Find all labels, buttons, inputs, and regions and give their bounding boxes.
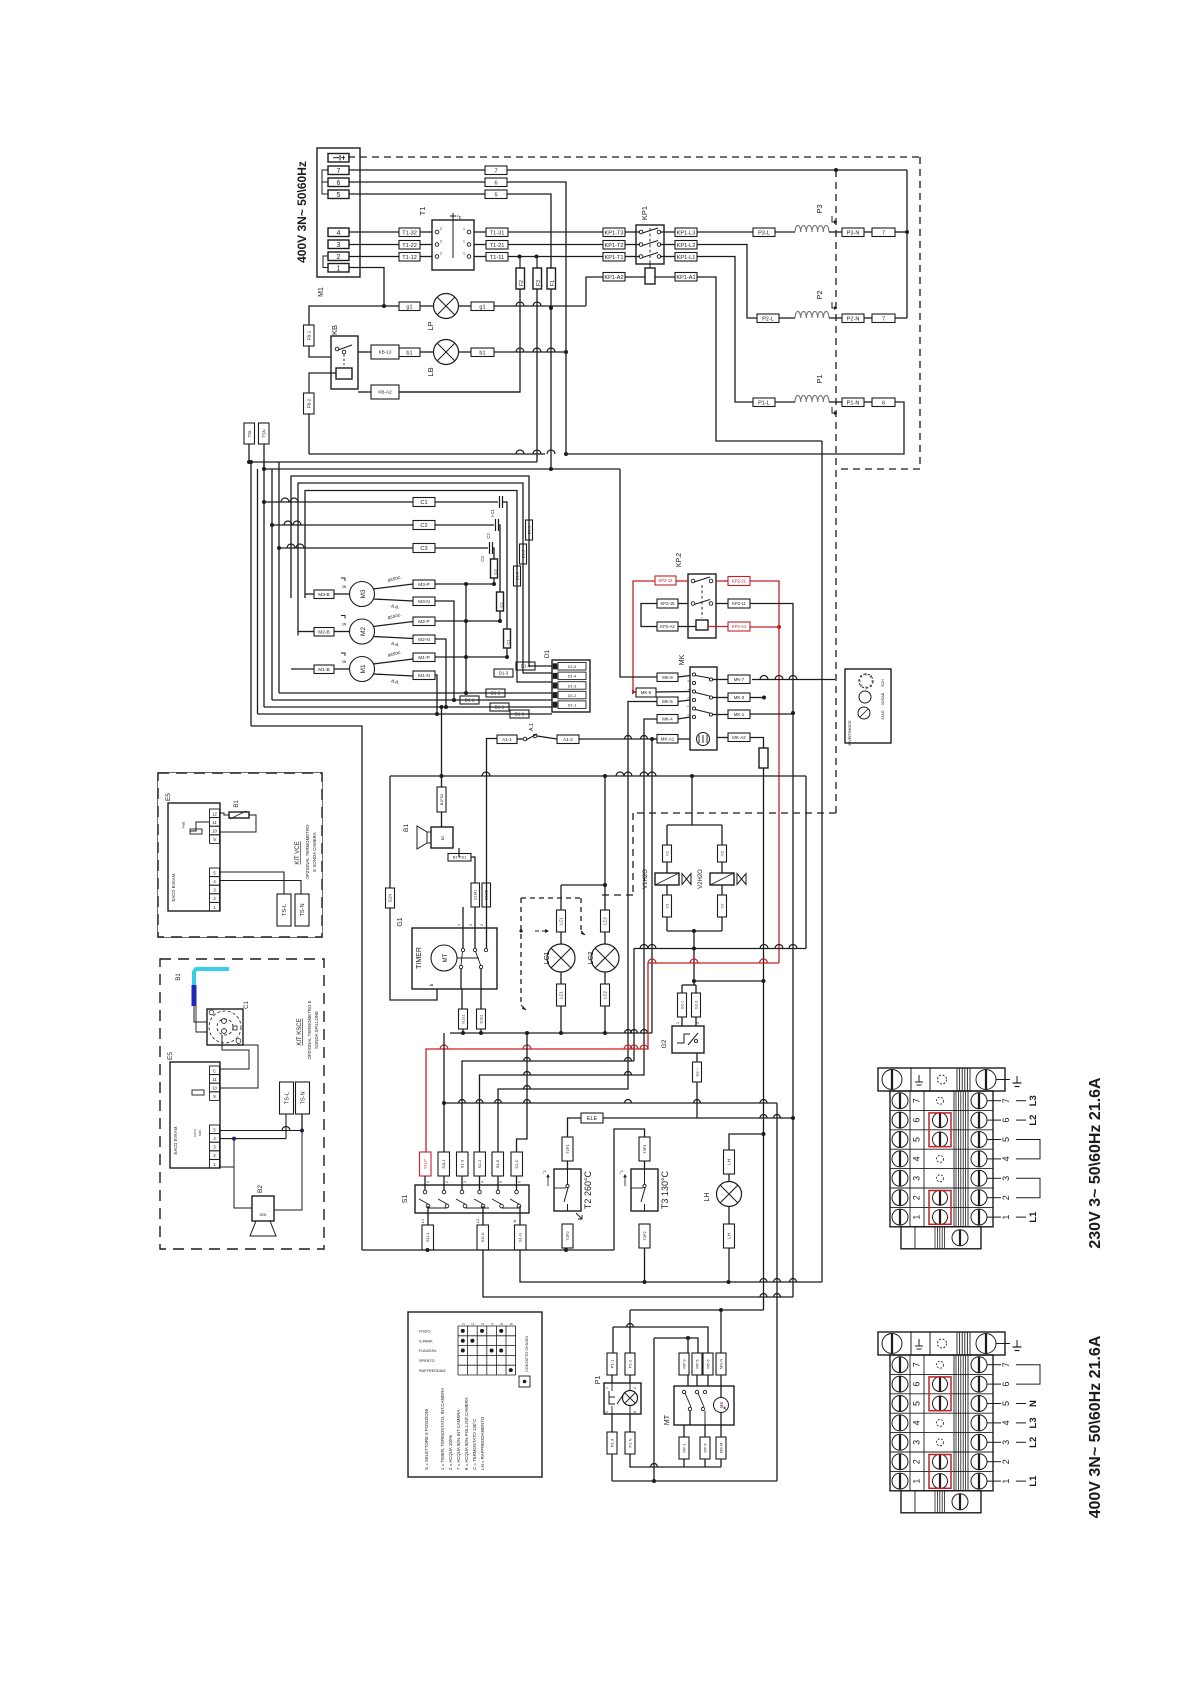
wire B2 right [274, 1130, 302, 1211]
wire T1-31 to KP1-T3 [508, 231, 603, 233]
wire G2 line up right [805, 776, 807, 949]
label MK-5 [657, 697, 678, 706]
node TS-N lower [300, 1129, 304, 1133]
node 763 LH line [762, 1132, 766, 1136]
wire pin1 to LP row [349, 268, 384, 307]
boundary arrow P3 [832, 216, 837, 222]
wire net7 from pin7 [349, 169, 485, 171]
wire C2 feed [272, 524, 413, 526]
svg-text:MT: MT [443, 953, 449, 962]
label P1-L [753, 398, 775, 407]
svg-text:OPZIONAL TERMOMETRO: OPZIONAL TERMOMETRO [305, 824, 310, 879]
red wire KP2-12 to MK-6 [633, 581, 655, 692]
wire nest left vertical 272 [271, 469, 273, 700]
svg-text:KB-13: KB-13 [379, 350, 392, 355]
svg-text:S1-6: S1-6 [495, 1159, 500, 1168]
label net5 box [485, 190, 507, 199]
wire LH to 1280 [728, 1248, 730, 1280]
label MK-4 [657, 715, 678, 724]
svg-text:S1L1: S1L1 [425, 1232, 430, 1242]
wire MT-1 bottom [683, 1459, 685, 1467]
svg-text:P2-L: P2-L [762, 316, 774, 322]
terminal X2 row 2 stub [987, 1461, 1001, 1463]
node LP feed [382, 304, 386, 308]
svg-text:7: 7 [912, 1362, 922, 1367]
S1 pins top [424, 1176, 426, 1190]
lamp LC2 [591, 944, 619, 972]
svg-text:5: 5 [687, 680, 691, 682]
wire P1-N to box6 [864, 401, 872, 403]
svg-text:T1-31: T1-31 [490, 230, 505, 236]
wire M3 P out [373, 584, 413, 589]
svg-text:MT: MT [664, 1414, 671, 1425]
svg-text:M1: M1 [360, 664, 367, 673]
thermostat T2 box [554, 1169, 581, 1211]
svg-text:2: 2 [471, 1323, 475, 1325]
svg-text:3N: 3N [342, 660, 347, 664]
wire net7 to right bus [507, 169, 907, 171]
svg-text:3N: 3N [342, 585, 347, 589]
E5 upper terminals group2 [210, 868, 220, 877]
wire MT-3 drop [687, 1338, 689, 1353]
KP2 coil [696, 620, 708, 630]
wire M3-B stub [305, 593, 314, 595]
label D1-1a [460, 696, 479, 704]
svg-text:C1: C1 [506, 639, 511, 645]
label G1-N [386, 888, 395, 908]
terminal X2 row 6 [890, 1373, 993, 1375]
terminal X1 row 4 [890, 1148, 993, 1150]
node dashed boundary on net7 [834, 168, 838, 172]
wire mid feed 620 [619, 469, 621, 677]
red hops [440, 1045, 448, 1049]
svg-text:2: 2 [440, 227, 442, 231]
motor block MT box [674, 1386, 734, 1425]
panel knob 1 [859, 674, 873, 688]
svg-text:6: 6 [882, 400, 885, 406]
valve V1H2O body [655, 873, 679, 885]
wire M3-N row [435, 601, 454, 700]
svg-text:6: 6 [1001, 1382, 1011, 1387]
svg-text:P3-L: P3-L [758, 230, 770, 236]
wire G2 split [682, 984, 696, 986]
svg-text:1: 1 [687, 714, 691, 716]
boundary arrow P2 [832, 302, 837, 308]
label LC2 top [601, 910, 610, 932]
svg-text:4: 4 [457, 924, 461, 926]
terminal X1 row 7 stub [987, 1100, 1001, 1102]
fuse F2 [516, 268, 525, 289]
svg-text:3: 3 [696, 1022, 700, 1024]
wire KP2-11 to vertical 793 [750, 604, 793, 1298]
label D1-1c [510, 710, 529, 718]
wire T3-P2 down [644, 1248, 646, 1282]
wire LP to KP1 coil feed [494, 305, 586, 307]
terminal X2 row 3 [890, 1432, 993, 1434]
label KP2-15 [657, 599, 678, 608]
svg-text:MT-1: MT-1 [681, 1443, 686, 1453]
svg-text:FB-2: FB-2 [306, 398, 311, 408]
svg-text:4: 4 [337, 230, 341, 237]
terminal strip X2 right brackets [1016, 1365, 1040, 1384]
svg-text:D1-3: D1-3 [499, 671, 509, 676]
label T3-P1 [639, 1137, 650, 1161]
svg-text:P1-N: P1-N [847, 400, 860, 406]
svg-text:3: 3 [687, 697, 691, 699]
svg-text:LC2: LC2 [603, 916, 608, 924]
svg-text:2: 2 [633, 1387, 637, 1389]
wire KP1-A2 from lamp feed [586, 277, 603, 306]
svg-text:KP1-T2: KP1-T2 [605, 243, 624, 249]
svg-text:D1-2: D1-2 [568, 693, 577, 698]
svg-text:g1: g1 [406, 304, 412, 310]
wire FS2 to B1 [441, 812, 443, 827]
wire MK-5 to S1-6 [498, 702, 657, 1153]
wire B1 to FS1 [458, 848, 460, 857]
dashed arrow to LC1 [535, 930, 549, 932]
label KB aux lower [371, 385, 399, 399]
svg-text:A1-2: A1-2 [563, 737, 573, 742]
buzzer B2 horn [250, 1221, 276, 1236]
MK coil symbol [697, 733, 710, 746]
pressure switch G2 box [672, 1026, 704, 1053]
heater P2 coil [795, 311, 829, 318]
svg-text:11: 11 [212, 1077, 217, 1082]
svg-text:8 = ACQUA 50% POLL.INT.CAMERA: 8 = ACQUA 50% POLL.INT.CAMERA [464, 1397, 469, 1470]
terminal X1 row 5 stub [987, 1139, 1001, 1141]
svg-text:KIT VCE: KIT VCE [295, 841, 301, 864]
wire MT bottoms [689, 1411, 691, 1437]
KP2 link dashes [701, 585, 703, 618]
svg-text:V2: V2 [719, 850, 724, 856]
wire V to G2 line [693, 931, 695, 985]
MT top bus [654, 1338, 698, 1353]
wire MK-A1 to A1 [652, 738, 657, 740]
label M2-N [413, 635, 435, 644]
svg-text:1: 1 [676, 1022, 680, 1024]
svg-text:M2-N: M2-N [418, 637, 430, 643]
panel knob 2 [859, 691, 871, 703]
wire nest left vertical 257 [257, 469, 259, 714]
T3 actuator line [631, 1187, 643, 1189]
svg-text:MK-1: MK-1 [734, 712, 745, 717]
svg-text:KP2-11: KP2-11 [732, 601, 746, 606]
wire N2 to D1 [264, 706, 552, 708]
microswitch A1 [523, 737, 527, 741]
label S1-6 [492, 1152, 504, 1176]
node A1 feed [650, 737, 654, 741]
hop bus over 486 [482, 772, 490, 776]
wire TS-N to bus469 [263, 444, 265, 469]
svg-text:7: 7 [494, 168, 497, 174]
thermal fuse upper [190, 829, 202, 834]
wire E5-5 to TS-N [220, 1130, 303, 1132]
wire P1 loop to KB net [566, 402, 904, 454]
wire coil A2 [625, 276, 645, 278]
D1 slot 3 [558, 682, 586, 690]
svg-text:4: 4 [481, 1181, 485, 1183]
label LH bottom [724, 1224, 735, 1248]
T1 pins [435, 230, 439, 234]
svg-text:6: 6 [518, 1181, 522, 1183]
label MK-6 [636, 688, 656, 697]
wire to T1 left pins [420, 231, 432, 233]
svg-text:MS-M: MS-M [718, 1443, 723, 1454]
svg-text:M2: M2 [360, 627, 367, 636]
svg-text:2: 2 [445, 1181, 449, 1183]
svg-text:D1: D1 [544, 649, 551, 658]
label T1-22 [399, 241, 420, 250]
svg-text:LH: LH [727, 1159, 732, 1165]
wire P1-2 feed [629, 1310, 631, 1353]
svg-text:C = TERMOSTATO 130°C: C = TERMOSTATO 130°C [472, 1419, 477, 1470]
wire V1 drop [666, 825, 668, 845]
label MT-1 [679, 1437, 689, 1459]
svg-text:6: 6 [337, 180, 341, 187]
svg-text:B1FS2: B1FS2 [440, 794, 444, 806]
wire C1 feed [264, 501, 413, 503]
nest loop inner [305, 491, 552, 683]
svg-text:MK-A1: MK-A1 [661, 736, 675, 741]
svg-text:S1L1: S1L1 [441, 1159, 446, 1169]
svg-text:MK-9: MK-9 [662, 675, 673, 680]
svg-text:KP1-T3: KP1-T3 [605, 230, 624, 236]
svg-text:P1-N: P1-N [627, 1438, 632, 1447]
dashed boundary corner to MK area [633, 812, 836, 814]
node P bus join [464, 691, 468, 695]
svg-text:LH: LH [704, 1193, 711, 1202]
svg-text:KP2-12: KP2-12 [659, 578, 674, 583]
node bottom rail [652, 1479, 656, 1483]
svg-text:FB-1: FB-1 [306, 330, 311, 340]
svg-text:C1: C1 [420, 500, 427, 506]
svg-text:LC1: LC1 [559, 990, 564, 998]
svg-text:L1: L1 [421, 1219, 425, 1223]
terminal M1 pin 2 [328, 252, 349, 261]
wire FS1 to timer pin [471, 857, 475, 883]
label KP1-L1 [675, 253, 697, 262]
svg-text:MT-4: MT-4 [702, 1443, 707, 1453]
node net6 joins KB line [564, 452, 568, 456]
wire C1 to E5 [220, 1035, 250, 1069]
label TS-L upper [277, 894, 291, 926]
label P2-N [842, 314, 864, 323]
label MK-7 [728, 675, 750, 684]
label MT-4 [700, 1437, 710, 1459]
wire B1 feed [441, 776, 443, 787]
svg-text:C: C [213, 1068, 216, 1073]
svg-text:3: 3 [481, 1323, 485, 1325]
svg-text:BZN: BZN [260, 1213, 267, 1217]
svg-text:T1-12: T1-12 [402, 255, 417, 261]
svg-text:D1-4: D1-4 [521, 664, 531, 669]
node bus462 nest [249, 460, 253, 464]
hops bus 1033 [625, 1030, 632, 1033]
vertical D1-5 label a [526, 520, 533, 540]
wire MK-9 feed [620, 469, 657, 677]
wire nest left vertical 264 [263, 462, 265, 707]
lamp LB [434, 340, 459, 365]
label G1-M1 [471, 883, 480, 907]
svg-text:2 = ACQUA 100%: 2 = ACQUA 100% [448, 1435, 453, 1470]
svg-text:TSL: TSL [247, 429, 252, 437]
legend dots [461, 1329, 465, 1333]
wire 1250 extension [428, 1249, 615, 1251]
wire KP1-L3 to P3 [697, 231, 753, 233]
svg-text:T3 130°C: T3 130°C [660, 1170, 670, 1209]
svg-text:6: 6 [494, 180, 497, 186]
svg-text:I-C1: I-C1 [490, 508, 495, 517]
wire coil A1 [655, 276, 675, 278]
svg-text:F2: F2 [519, 280, 525, 286]
hops ELE line [760, 1115, 767, 1119]
wire to coil P3 [775, 231, 795, 233]
svg-text:G1M2: G1M2 [485, 890, 489, 900]
svg-text:A1-1: A1-1 [502, 737, 512, 742]
svg-text:C3: C3 [480, 556, 485, 562]
label G2-1 [678, 993, 687, 1017]
label KP2-11 [728, 599, 750, 608]
label LC1 top [557, 910, 566, 932]
svg-text:N: N [1028, 1400, 1039, 1407]
terminal X1 row 1 stub [987, 1216, 1001, 1218]
svg-text:10: 10 [212, 829, 217, 834]
label MT-3 [679, 1353, 689, 1375]
wire LC1 to lamp [560, 932, 562, 944]
svg-text:ELE: ELE [587, 1116, 598, 1122]
terminal X2 row 2 [890, 1451, 993, 1453]
label A1-1 [497, 735, 517, 744]
terminal strip X1 right brackets [1016, 1140, 1040, 1159]
wire V1 join [666, 917, 668, 931]
label P2 net7 box [872, 314, 895, 323]
svg-text:4: 4 [490, 1323, 494, 1325]
label LC2 bottom [601, 984, 610, 1006]
wire M3 N out [373, 599, 413, 601]
svg-text:P1: P1 [815, 374, 824, 383]
svg-text:2: 2 [1001, 1459, 1011, 1464]
terminal X2 row 4 stub [987, 1422, 1001, 1424]
svg-text:5: 5 [1001, 1137, 1011, 1142]
terminal X1 row 2 stub [987, 1197, 1001, 1199]
svg-text:11: 11 [212, 820, 217, 825]
label P3 net7 box [872, 228, 895, 237]
label MK-A1 [657, 735, 678, 744]
contactor MK box [690, 667, 717, 750]
svg-text:B1: B1 [403, 824, 410, 832]
node C3 tap [277, 546, 281, 550]
svg-text:3: 3 [912, 1176, 922, 1181]
wire E5 jumper [190, 822, 210, 831]
label KP1-A2 [603, 273, 625, 282]
wire net6 from pin6 [349, 181, 485, 183]
svg-text:PHR: PHR [182, 821, 186, 828]
wire net6 right then down [507, 182, 566, 454]
legend closed-contact key [519, 1376, 530, 1387]
svg-text:V1H2O: V1H2O [643, 869, 649, 889]
dashed boundary inner vertical [835, 170, 837, 813]
M2 tick [341, 616, 345, 619]
svg-text:MK-A2: MK-A2 [732, 735, 746, 740]
valve V2H2O seat [737, 874, 746, 885]
wire TS-L to bus462 [248, 444, 250, 462]
svg-text:LC1: LC1 [544, 951, 551, 964]
wire LC1 riser [560, 885, 562, 910]
svg-text:3: 3 [912, 1440, 922, 1445]
svg-text:2: 2 [1001, 1195, 1011, 1200]
heater P1 coil [795, 395, 829, 402]
wire C2 cap corner down [499, 525, 500, 592]
KP2 contact top [691, 579, 695, 583]
MT pin leads [687, 1375, 689, 1386]
label S1-C [511, 1152, 523, 1176]
terminal X2 row 7 stub [987, 1364, 1001, 1366]
node LC2 tap [603, 774, 607, 778]
wire 1327 feed [613, 1327, 708, 1353]
wire V feed down [691, 776, 693, 825]
svg-text:AUTO: AUTO [193, 1128, 197, 1137]
svg-text:D1-5: D1-5 [568, 664, 577, 669]
terminal strip X2 bottom extension [901, 1491, 981, 1513]
thermostat T3 box [631, 1169, 658, 1211]
svg-text:3N: 3N [342, 623, 347, 627]
svg-text:1: 1 [426, 1181, 430, 1183]
svg-text:TS-N: TS-N [301, 1091, 307, 1104]
node C3 M3P [492, 582, 496, 586]
wire G2 down to ELE line [696, 1082, 698, 1118]
lamp LP [434, 294, 459, 319]
wire S1-L1 to nest loop [362, 1249, 428, 1251]
node on G2 line [692, 947, 696, 951]
dashed segment to G2 area [632, 813, 634, 895]
svg-text:A.1: A.1 [529, 723, 535, 731]
terminal M1 pin 4 [328, 228, 349, 237]
wire MK-4 to S1-2 [480, 719, 658, 1152]
label T2-P1 [562, 1137, 573, 1161]
wire G2 line left down [633, 949, 635, 1062]
nest bottom loop [251, 726, 362, 1250]
label G1-b1 [477, 1009, 486, 1029]
svg-text:B1: B1 [176, 973, 182, 981]
wire net5 from pin5 [349, 193, 485, 195]
svg-text:MK-7: MK-7 [734, 677, 745, 682]
terminal strip X1 right wiring [1016, 1100, 1026, 1102]
label P2-L [757, 314, 779, 323]
svg-text:°c: °c [619, 1170, 624, 1174]
svg-text:KP.2: KP.2 [676, 553, 683, 567]
svg-text:INVERTMODE: INVERTMODE [848, 720, 852, 746]
svg-text:EACO EVKAM.: EACO EVKAM. [171, 873, 176, 902]
node B1 feed tap [440, 705, 444, 709]
label S1-L1 bottom [422, 1225, 434, 1250]
label A1-2 [557, 735, 579, 744]
label net7 box [485, 166, 507, 175]
svg-text:7: 7 [1001, 1362, 1011, 1367]
node C2 tap [270, 523, 274, 527]
label T1-11 [486, 253, 508, 262]
terminal X2 row 1 [890, 1470, 993, 1472]
S1 pins bottom [426, 1204, 430, 1208]
label T2-P2 [562, 1224, 573, 1248]
terminal X2 row 7 [892, 1357, 908, 1373]
wire M1 pin3 to T1 [349, 244, 399, 246]
terminal M1 pin 7 [328, 166, 349, 175]
svg-text:KP1-L1: KP1-L1 [677, 255, 696, 261]
dashed pointer horizontal [521, 897, 581, 899]
buzzer B2 box [252, 1196, 274, 1221]
wire 1061 to S1-3 [462, 1061, 634, 1152]
bottom rail [612, 1480, 777, 1482]
